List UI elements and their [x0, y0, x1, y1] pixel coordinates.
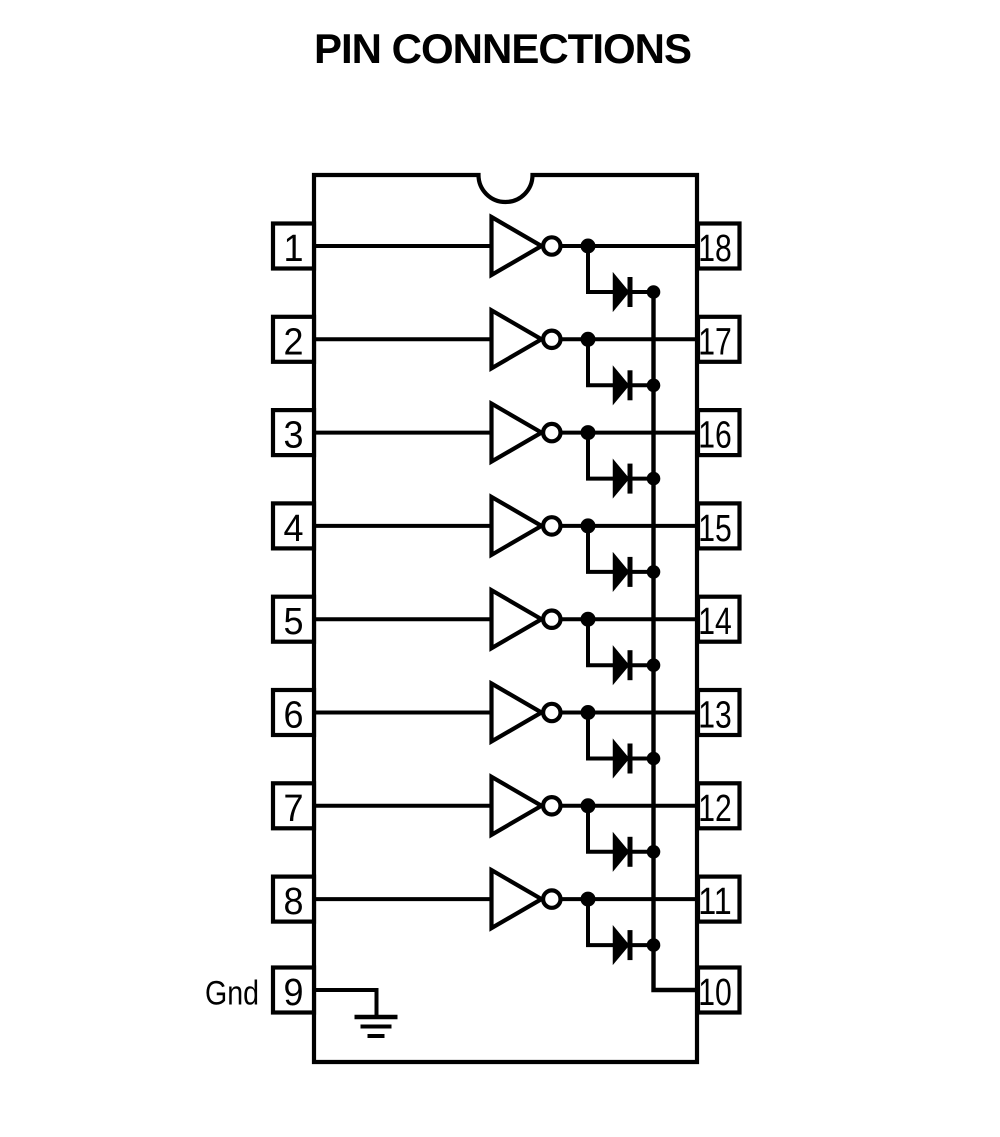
diode D6 (clamp diode to common bus) — [614, 741, 633, 777]
label Gnd — [205, 975, 259, 1013]
pin 15 — [698, 503, 740, 550]
wire inverter output to pin 14 — [561, 617, 699, 621]
junction dot output node 14 — [581, 612, 596, 627]
wire pin 4 to inverter input — [314, 524, 494, 528]
wire pin 9 to ground — [314, 990, 377, 1017]
svg-text:16: 16 — [698, 415, 732, 457]
wire output node to diode D2 anode — [588, 339, 616, 385]
pin 8 — [273, 877, 314, 924]
junction dot bus row 5 — [647, 658, 661, 672]
wire output node to diode D8 anode — [588, 899, 616, 945]
inverter (channel 4) — [492, 497, 561, 555]
svg-text:12: 12 — [698, 788, 732, 830]
junction dot output node 15 — [581, 518, 596, 533]
junction dot output node 13 — [581, 705, 596, 720]
pin 9 — [273, 968, 314, 1015]
pin 7 — [273, 783, 314, 830]
wire inverter output to pin 11 — [561, 897, 699, 901]
wire diode D5 cathode to bus — [633, 663, 654, 667]
svg-text:8: 8 — [284, 881, 304, 923]
svg-text:9: 9 — [284, 972, 304, 1014]
IC body U1 (18-pin DIP outline with notch) — [314, 175, 697, 1062]
wire diode D3 cathode to bus — [633, 477, 654, 481]
wire common cathode bus to pin 10 — [654, 292, 699, 990]
svg-text:3: 3 — [284, 415, 304, 457]
pin 16 — [698, 410, 740, 457]
pin 3 — [273, 410, 314, 457]
svg-text:14: 14 — [698, 601, 732, 643]
junction dot bus row 6 — [647, 752, 661, 766]
pin 1 — [273, 224, 314, 271]
wire pin 3 to inverter input — [314, 431, 494, 435]
wire diode D4 cathode to bus — [633, 570, 654, 574]
svg-text:17: 17 — [698, 321, 732, 363]
junction dot output node 17 — [581, 332, 596, 347]
inverter (channel 8) — [492, 870, 561, 928]
inverter (channel 1) — [492, 217, 561, 275]
diode D3 (clamp diode to common bus) — [614, 461, 633, 497]
junction dot bus row 4 — [647, 565, 661, 579]
junction dot output node 16 — [581, 425, 596, 440]
inverter (channel 3) — [492, 404, 561, 462]
junction dot bus row 1 — [647, 285, 661, 299]
pin 14 — [698, 597, 740, 644]
inverter (channel 5) — [492, 590, 561, 648]
wire output node to diode D1 anode — [588, 246, 616, 292]
junction dot bus row 2 — [647, 379, 661, 393]
pin 10 — [698, 968, 740, 1015]
wire pin 7 to inverter input — [314, 804, 494, 808]
svg-text:10: 10 — [698, 972, 732, 1014]
pin 2 — [273, 317, 314, 364]
svg-text:4: 4 — [284, 508, 304, 550]
wire pin 2 to inverter input — [314, 337, 494, 341]
pin 18 — [698, 224, 740, 271]
wire output node to diode D4 anode — [588, 526, 616, 572]
wire diode D1 cathode to bus — [633, 290, 654, 294]
wire output node to diode D5 anode — [588, 619, 616, 665]
svg-text:15: 15 — [698, 508, 732, 550]
pin 11 — [698, 877, 740, 924]
diode D7 (clamp diode to common bus) — [614, 834, 633, 870]
svg-text:5: 5 — [284, 601, 304, 643]
title "PIN CONNECTIONS" — [314, 25, 691, 72]
pin 13 — [698, 690, 740, 737]
inverter (channel 2) — [492, 310, 561, 368]
wire pin 8 to inverter input — [314, 897, 494, 901]
svg-text:2: 2 — [284, 321, 304, 363]
diode D2 (clamp diode to common bus) — [614, 367, 633, 403]
wire output node to diode D6 anode — [588, 713, 616, 759]
wire inverter output to pin 13 — [561, 711, 699, 715]
junction dot output node 18 — [581, 239, 596, 254]
wire diode D6 cathode to bus — [633, 757, 654, 761]
diode D5 (clamp diode to common bus) — [614, 647, 633, 683]
wire inverter output to pin 16 — [561, 431, 699, 435]
inverter (channel 7) — [492, 777, 561, 835]
pin 17 — [698, 317, 740, 364]
inverter (channel 6) — [492, 684, 561, 742]
wire output node to diode D3 anode — [588, 433, 616, 479]
pin 5 — [273, 597, 314, 644]
junction dot output node 11 — [581, 892, 596, 907]
junction dot bus row 8 — [647, 938, 661, 952]
wire diode D2 cathode to bus — [633, 383, 654, 387]
svg-text:1: 1 — [284, 228, 304, 270]
wire inverter output to pin 17 — [561, 337, 699, 341]
wire inverter output to pin 18 — [561, 244, 699, 248]
svg-text:PIN CONNECTIONS: PIN CONNECTIONS — [314, 25, 691, 72]
wire pin 6 to inverter input — [314, 711, 494, 715]
diode D4 (clamp diode to common bus) — [614, 554, 633, 590]
svg-text:7: 7 — [284, 788, 304, 830]
svg-text:18: 18 — [698, 228, 732, 270]
wire inverter output to pin 12 — [561, 804, 699, 808]
wire inverter output to pin 15 — [561, 524, 699, 528]
pin 4 — [273, 503, 314, 550]
diode D1 (clamp diode to common bus) — [614, 274, 633, 310]
wire diode D7 cathode to bus — [633, 850, 654, 854]
svg-text:6: 6 — [284, 695, 304, 737]
svg-text:13: 13 — [698, 695, 732, 737]
junction dot bus row 3 — [647, 472, 661, 486]
wire pin 5 to inverter input — [314, 617, 494, 621]
pin 6 — [273, 690, 314, 737]
junction dot bus row 7 — [647, 845, 661, 859]
junction dot output node 12 — [581, 798, 596, 813]
wire output node to diode D7 anode — [588, 806, 616, 852]
diode D8 (clamp diode to common bus) — [614, 927, 633, 963]
pin 12 — [698, 783, 740, 830]
svg-text:Gnd: Gnd — [205, 975, 259, 1013]
wire pin 1 to inverter input — [314, 244, 494, 248]
wire diode D8 cathode to bus — [633, 943, 654, 947]
ground symbol — [355, 1017, 398, 1036]
svg-text:11: 11 — [698, 881, 732, 923]
